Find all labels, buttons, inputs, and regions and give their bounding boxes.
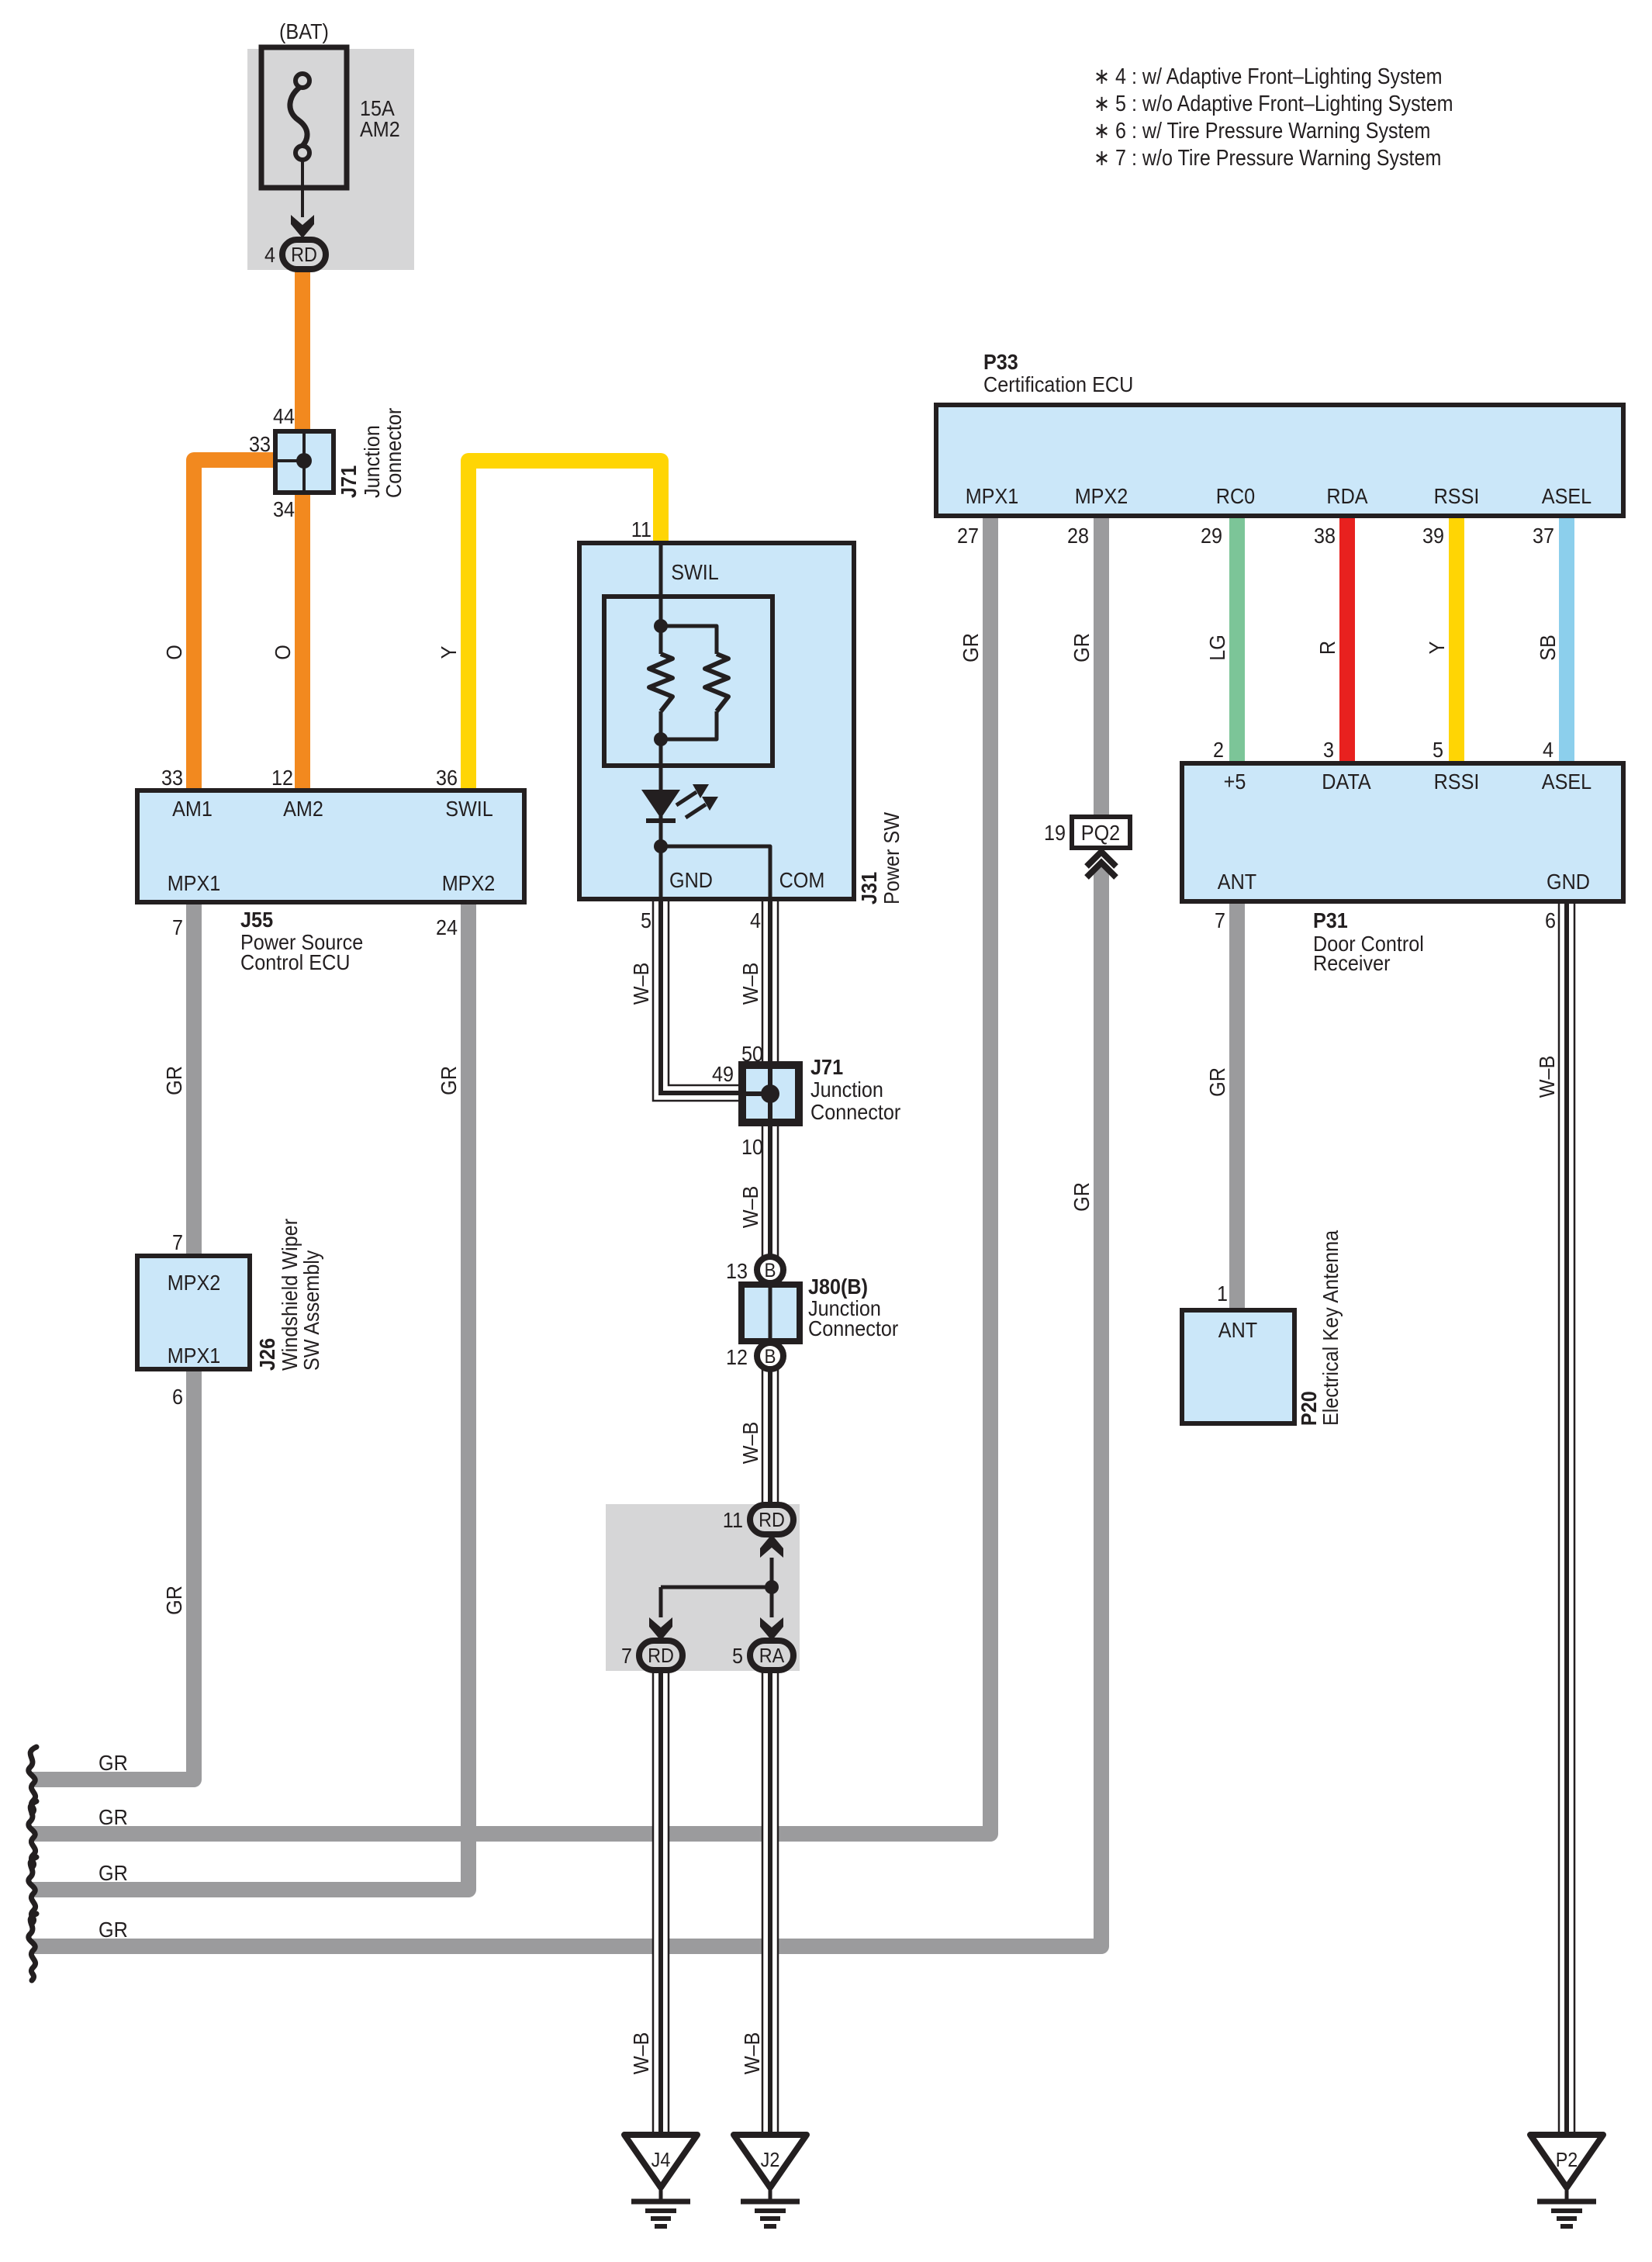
svg-text:W–B: W–B bbox=[629, 963, 653, 1005]
svg-text:GR: GR bbox=[162, 1586, 186, 1615]
svg-text:P2: P2 bbox=[1556, 2148, 1578, 2171]
svg-text:4: 4 bbox=[750, 908, 761, 932]
svg-text:GR: GR bbox=[162, 1066, 186, 1095]
svg-text:7: 7 bbox=[172, 915, 183, 939]
svg-text:Y: Y bbox=[1425, 641, 1449, 654]
svg-text:Electrical Key Antenna: Electrical Key Antenna bbox=[1318, 1230, 1343, 1426]
svg-text:12: 12 bbox=[726, 1345, 748, 1369]
svg-text:MPX2: MPX2 bbox=[168, 1271, 221, 1295]
svg-text:6: 6 bbox=[172, 1385, 183, 1409]
svg-text:2: 2 bbox=[1213, 738, 1224, 762]
svg-text:W–B: W–B bbox=[629, 2032, 653, 2075]
svg-text:W–B: W–B bbox=[738, 1186, 762, 1229]
svg-text:W–B: W–B bbox=[740, 2032, 764, 2075]
svg-text:5: 5 bbox=[641, 908, 651, 932]
svg-text:GR: GR bbox=[437, 1066, 461, 1095]
svg-text:SWIL: SWIL bbox=[671, 560, 719, 584]
svg-text:49: 49 bbox=[712, 1062, 734, 1086]
svg-text:10: 10 bbox=[741, 1135, 763, 1159]
svg-text:Connector: Connector bbox=[382, 408, 406, 498]
svg-text:Power SW: Power SW bbox=[880, 811, 904, 904]
svg-text:∗ 5 : w/o Adaptive Front–Light: ∗ 5 : w/o Adaptive Front–Lighting System bbox=[1094, 92, 1453, 116]
svg-text:SWIL: SWIL bbox=[445, 797, 493, 821]
svg-text:LG: LG bbox=[1205, 635, 1229, 661]
svg-text:J31: J31 bbox=[857, 872, 881, 904]
svg-text:Connector: Connector bbox=[808, 1316, 898, 1340]
svg-text:33: 33 bbox=[249, 432, 271, 456]
svg-text:3: 3 bbox=[1323, 738, 1334, 762]
svg-text:GR: GR bbox=[1070, 633, 1094, 662]
svg-text:RC0: RC0 bbox=[1216, 484, 1255, 508]
svg-text:(BAT): (BAT) bbox=[279, 19, 329, 43]
svg-text:W–B: W–B bbox=[1535, 1056, 1559, 1098]
svg-text:B: B bbox=[765, 1260, 776, 1281]
svg-text:11: 11 bbox=[723, 1508, 743, 1532]
svg-text:J71: J71 bbox=[810, 1055, 843, 1079]
svg-text:GR: GR bbox=[98, 1861, 128, 1885]
svg-text:MPX2: MPX2 bbox=[442, 871, 496, 895]
svg-text:19: 19 bbox=[1044, 821, 1066, 845]
svg-text:GND: GND bbox=[669, 868, 713, 892]
svg-text:44: 44 bbox=[273, 404, 295, 428]
svg-text:36: 36 bbox=[436, 766, 458, 790]
svg-text:7: 7 bbox=[172, 1230, 183, 1254]
svg-text:Connector: Connector bbox=[810, 1100, 900, 1124]
svg-text:COM: COM bbox=[779, 868, 825, 892]
svg-text:11: 11 bbox=[631, 517, 651, 541]
svg-text:J26: J26 bbox=[255, 1338, 279, 1371]
svg-text:MPX2: MPX2 bbox=[1075, 484, 1128, 508]
svg-text:7: 7 bbox=[621, 1644, 632, 1668]
svg-text:J2: J2 bbox=[761, 2148, 780, 2171]
svg-text:RSSI: RSSI bbox=[1434, 484, 1480, 508]
svg-text:GR: GR bbox=[1205, 1067, 1229, 1097]
svg-text:12: 12 bbox=[271, 766, 293, 790]
svg-text:O: O bbox=[271, 645, 295, 660]
svg-text:ANT: ANT bbox=[1218, 1318, 1257, 1342]
svg-text:P31: P31 bbox=[1313, 908, 1348, 932]
svg-text:R: R bbox=[1315, 641, 1339, 655]
svg-text:SW Assembly: SW Assembly bbox=[299, 1250, 323, 1371]
svg-text:AM1: AM1 bbox=[172, 797, 213, 821]
svg-text:P33: P33 bbox=[983, 350, 1018, 374]
svg-text:5: 5 bbox=[1433, 738, 1443, 762]
svg-text:J71: J71 bbox=[337, 465, 361, 498]
svg-text:J55: J55 bbox=[240, 908, 273, 932]
svg-text:+5: +5 bbox=[1224, 770, 1246, 794]
svg-text:GR: GR bbox=[1070, 1182, 1094, 1212]
svg-text:Certification ECU: Certification ECU bbox=[983, 372, 1133, 396]
svg-text:Windshield Wiper: Windshield Wiper bbox=[278, 1219, 302, 1371]
svg-text:28: 28 bbox=[1067, 524, 1089, 548]
svg-text:ASEL: ASEL bbox=[1542, 770, 1592, 794]
svg-text:Junction: Junction bbox=[810, 1077, 883, 1102]
svg-text:33: 33 bbox=[161, 766, 183, 790]
svg-text:GR: GR bbox=[98, 1751, 128, 1775]
svg-text:RA: RA bbox=[759, 1644, 785, 1667]
svg-text:AM2: AM2 bbox=[283, 797, 323, 821]
svg-text:39: 39 bbox=[1422, 524, 1444, 548]
svg-text:5: 5 bbox=[732, 1644, 743, 1668]
svg-text:ASEL: ASEL bbox=[1542, 484, 1592, 508]
svg-text:29: 29 bbox=[1201, 524, 1222, 548]
svg-text:1: 1 bbox=[1217, 1281, 1228, 1306]
svg-text:37: 37 bbox=[1533, 524, 1554, 548]
svg-text:ANT: ANT bbox=[1218, 870, 1256, 894]
svg-text:MPX1: MPX1 bbox=[168, 1344, 221, 1368]
svg-text:24: 24 bbox=[436, 915, 458, 939]
svg-text:Junction: Junction bbox=[360, 425, 384, 498]
svg-text:38: 38 bbox=[1314, 524, 1336, 548]
svg-text:SB: SB bbox=[1536, 635, 1560, 661]
svg-text:W–B: W–B bbox=[738, 963, 762, 1005]
svg-text:27: 27 bbox=[957, 524, 979, 548]
svg-text:AM2: AM2 bbox=[360, 117, 400, 141]
svg-text:4: 4 bbox=[264, 243, 275, 267]
svg-text:∗ 6 : w/ Tire Pressure Warning: ∗ 6 : w/ Tire Pressure Warning System bbox=[1094, 119, 1430, 144]
svg-text:W–B: W–B bbox=[738, 1422, 762, 1465]
svg-text:RSSI: RSSI bbox=[1434, 770, 1480, 794]
svg-text:P20: P20 bbox=[1297, 1391, 1321, 1426]
svg-text:PQ2: PQ2 bbox=[1081, 821, 1120, 845]
svg-text:50: 50 bbox=[741, 1042, 763, 1066]
svg-text:∗ 4 : w/ Adaptive Front–Lighti: ∗ 4 : w/ Adaptive Front–Lighting System bbox=[1094, 64, 1443, 89]
svg-text:∗ 7 : w/o Tire Pressure Warnin: ∗ 7 : w/o Tire Pressure Warning System bbox=[1094, 146, 1441, 171]
svg-text:Receiver: Receiver bbox=[1313, 951, 1391, 975]
svg-text:Y: Y bbox=[437, 645, 461, 659]
svg-text:MPX1: MPX1 bbox=[966, 484, 1019, 508]
svg-text:GR: GR bbox=[98, 1918, 128, 1942]
svg-text:RD: RD bbox=[759, 1508, 785, 1531]
svg-text:GR: GR bbox=[959, 633, 983, 662]
svg-text:B: B bbox=[765, 1346, 776, 1368]
svg-text:GR: GR bbox=[98, 1805, 128, 1829]
svg-text:13: 13 bbox=[726, 1259, 748, 1283]
svg-text:MPX1: MPX1 bbox=[168, 871, 221, 895]
svg-text:GND: GND bbox=[1547, 870, 1590, 894]
svg-text:DATA: DATA bbox=[1322, 770, 1371, 794]
svg-text:RD: RD bbox=[291, 243, 317, 266]
svg-text:J4: J4 bbox=[651, 2148, 671, 2171]
svg-text:J80(B): J80(B) bbox=[808, 1275, 868, 1299]
svg-text:O: O bbox=[162, 645, 186, 660]
svg-text:6: 6 bbox=[1545, 908, 1556, 932]
svg-text:7: 7 bbox=[1215, 908, 1225, 932]
svg-text:Control ECU: Control ECU bbox=[240, 950, 351, 974]
svg-text:4: 4 bbox=[1543, 738, 1554, 762]
svg-text:34: 34 bbox=[273, 497, 295, 521]
svg-text:RD: RD bbox=[648, 1644, 674, 1667]
svg-text:RDA: RDA bbox=[1326, 484, 1367, 508]
